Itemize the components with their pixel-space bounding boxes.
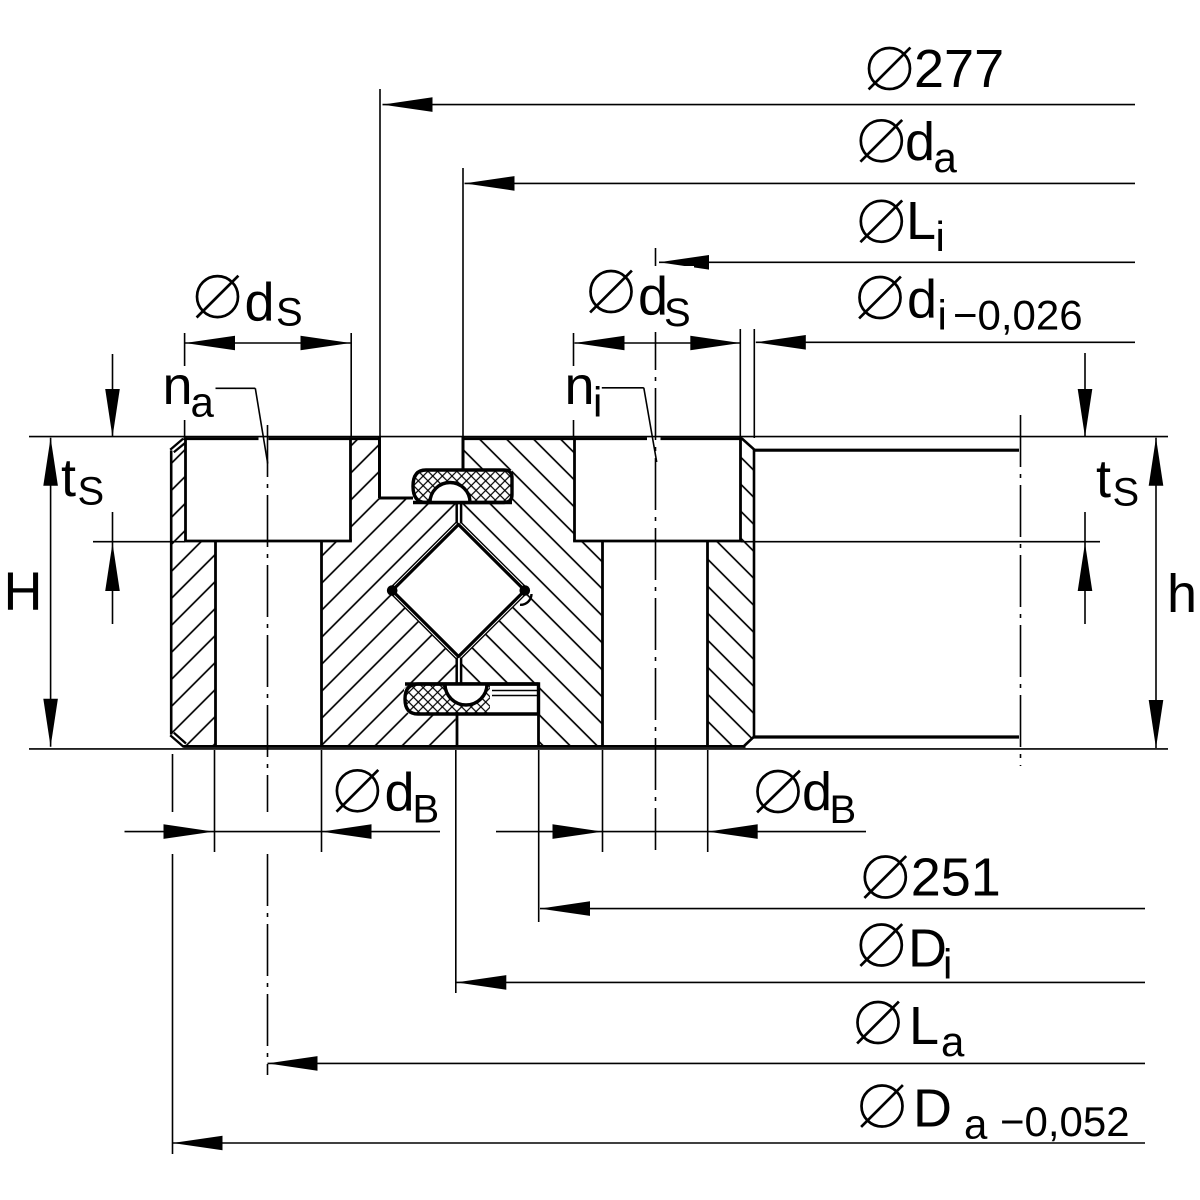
svg-text:B: B xyxy=(413,787,440,831)
svg-text:d: d xyxy=(905,112,935,172)
svg-text:S: S xyxy=(276,291,303,335)
svg-text:i: i xyxy=(938,292,947,339)
svg-text:d: d xyxy=(907,270,937,330)
svg-text:S: S xyxy=(78,470,105,514)
svg-text:S: S xyxy=(1113,471,1140,515)
svg-text:h: h xyxy=(1167,564,1197,624)
svg-text:D: D xyxy=(913,1079,952,1139)
svg-text:D: D xyxy=(908,918,947,978)
svg-text:−0,026: −0,026 xyxy=(953,292,1083,339)
svg-text:L: L xyxy=(909,996,939,1056)
svg-text:a: a xyxy=(934,134,958,181)
svg-text:i: i xyxy=(943,940,952,987)
svg-text:d: d xyxy=(385,762,415,822)
svg-text:d: d xyxy=(802,762,832,822)
svg-text:277: 277 xyxy=(914,39,1004,99)
svg-text:t: t xyxy=(1096,449,1111,509)
svg-text:251: 251 xyxy=(911,848,1001,908)
svg-text:H: H xyxy=(4,561,43,621)
svg-text:L: L xyxy=(906,191,936,251)
svg-text:n: n xyxy=(565,356,595,416)
svg-text:i: i xyxy=(936,213,945,260)
svg-text:a: a xyxy=(964,1101,988,1148)
svg-text:i: i xyxy=(593,379,602,426)
svg-text:n: n xyxy=(163,356,193,416)
svg-text:−0,052: −0,052 xyxy=(1000,1098,1130,1145)
svg-text:B: B xyxy=(830,788,857,832)
svg-text:a: a xyxy=(941,1018,965,1065)
svg-text:S: S xyxy=(664,291,691,335)
svg-text:a: a xyxy=(191,379,215,426)
svg-text:d: d xyxy=(245,272,275,332)
svg-text:t: t xyxy=(61,448,76,508)
